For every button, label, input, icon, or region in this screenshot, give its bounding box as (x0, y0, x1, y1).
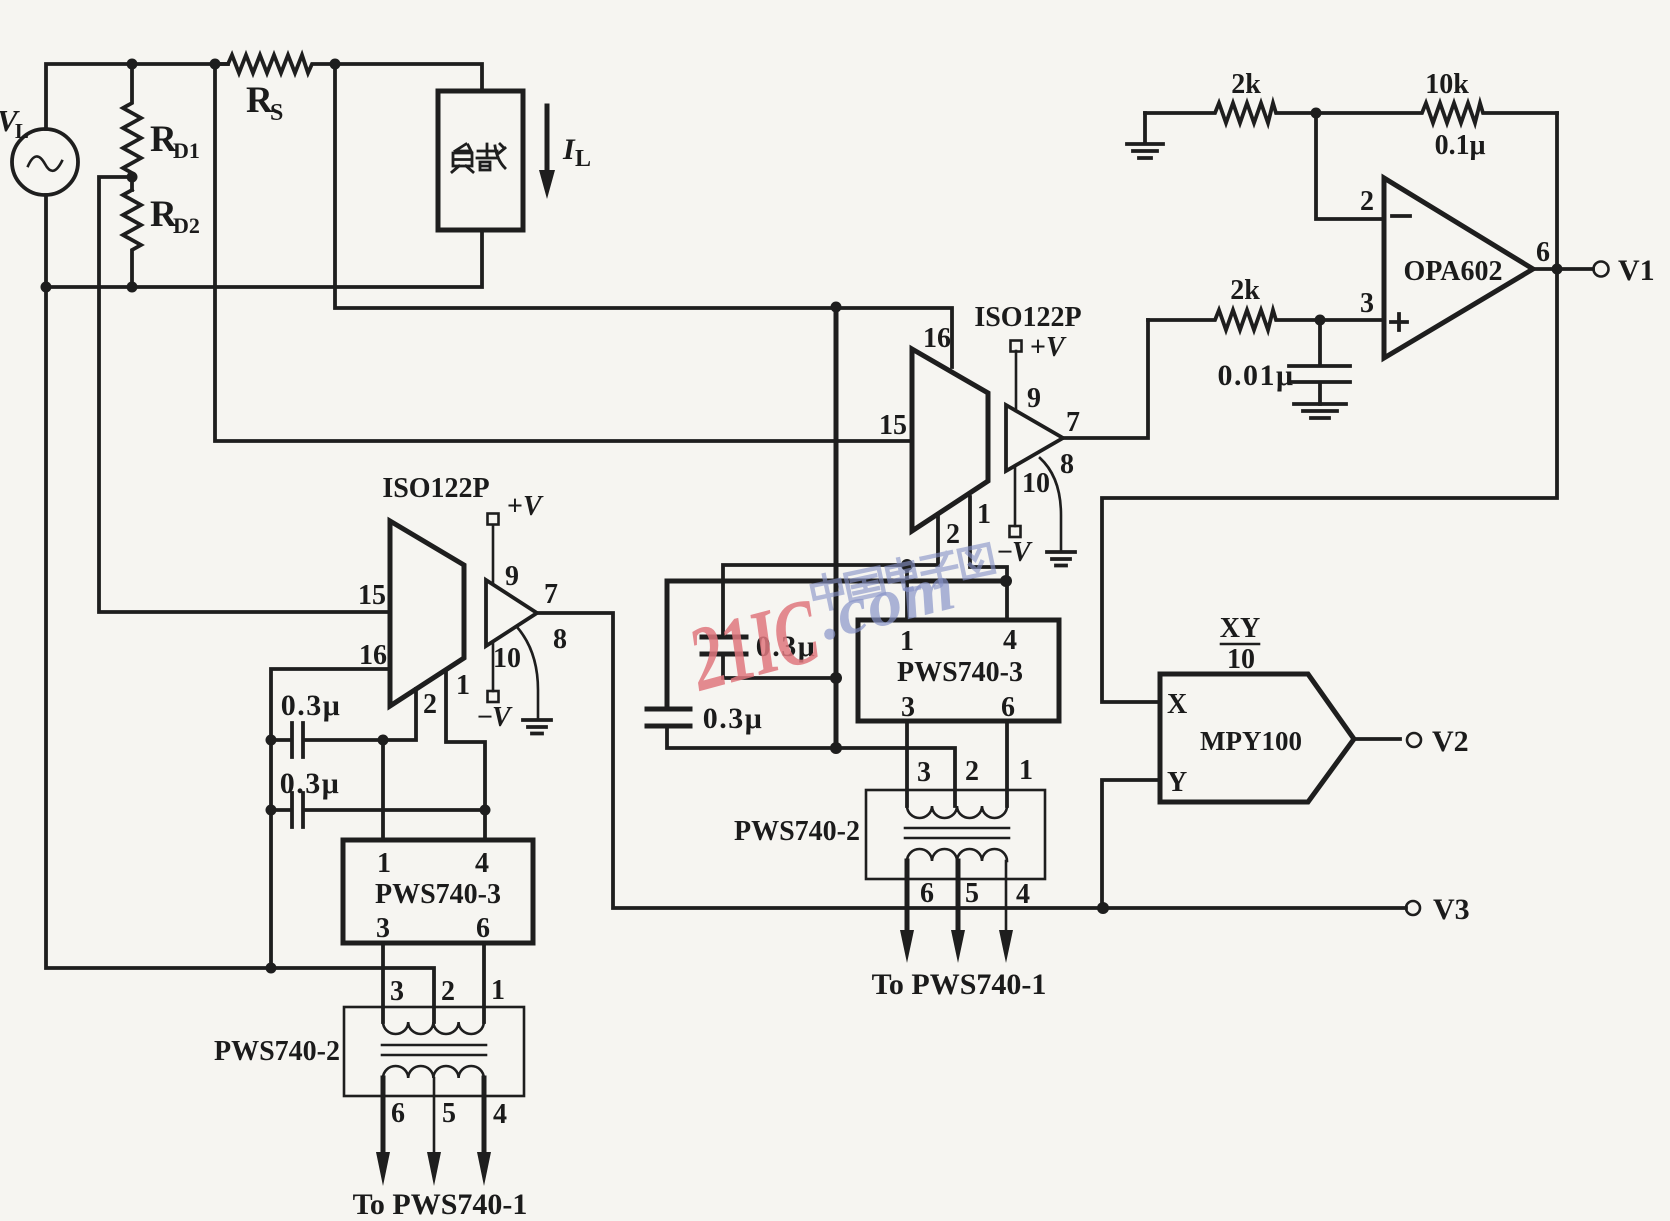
ground ISO2 (1047, 552, 1075, 566)
wire ISO2 common vertical (834, 307, 839, 748)
T2 pin5 arrow (956, 861, 961, 933)
wire ISO2 pin1 to PWS2 pin4 (970, 497, 1007, 620)
node RD2 bottom (127, 282, 138, 293)
svg-text:2: 2 (1360, 186, 1374, 217)
node C2 left (266, 805, 277, 816)
T1 primary winding (383, 1022, 484, 1034)
svg-text:8: 8 (1060, 449, 1074, 480)
svg-text:OPA602: OPA602 (1403, 256, 1502, 287)
svg-text:10k: 10k (1425, 69, 1469, 100)
wire ISO1 pin16 / left bypass rail (271, 669, 390, 968)
svg-text:V3: V3 (1433, 893, 1470, 926)
PWS740-3 #2 box (858, 620, 1059, 721)
wire V2 output (1354, 737, 1400, 741)
svg-text:6: 6 (391, 1098, 405, 1129)
wire divider tap to ISO1 pin15 (99, 177, 390, 612)
ISO2 -V terminal (1014, 466, 1017, 526)
svg-text:PWS740-2: PWS740-2 (214, 1036, 340, 1067)
svg-text:6: 6 (1536, 237, 1550, 268)
T2 core (905, 828, 1009, 838)
svg-text:XY: XY (1220, 613, 1260, 644)
wire PWS1 pin6 to T1 (482, 943, 486, 1022)
svg-text:V: V (1046, 332, 1067, 363)
resistor RS (215, 55, 482, 91)
svg-text:1: 1 (456, 670, 470, 701)
wire RS left sense to ISO2 pin15 (215, 64, 912, 441)
wire PWS2 pin1 (905, 565, 909, 620)
capacitor C1 0.3u (271, 689, 416, 740)
wire ISO2 pin8 to ground (1040, 458, 1061, 550)
wire top rail left (46, 64, 228, 129)
watermark hanzi (810, 540, 994, 612)
svg-text:9: 9 (505, 561, 519, 592)
svg-text:2: 2 (946, 519, 960, 550)
wire ISO1 pin7 output to V3 rail (537, 613, 1406, 908)
node bypass rail top (266, 735, 277, 746)
opamp plus (1391, 314, 1407, 330)
svg-text:4: 4 (1016, 879, 1030, 910)
svg-text:15: 15 (358, 580, 386, 611)
node C3 bottom / common (830, 672, 842, 684)
T2 pin6 arrow (905, 861, 910, 933)
T1 pin6 arrow (381, 1078, 386, 1155)
svg-text:ISO122P: ISO122P (382, 473, 489, 504)
ground 2k feedback (1127, 113, 1163, 158)
ISO1 -V terminal (492, 642, 495, 691)
svg-text:3: 3 (1360, 288, 1374, 319)
svg-text:7: 7 (544, 579, 558, 610)
wire PWS2 pin6 to T2 (1005, 721, 1009, 806)
wire left common rail (46, 195, 434, 1022)
transformer T2 box (866, 790, 1045, 879)
svg-text:L: L (575, 146, 591, 172)
svg-text:4: 4 (493, 1099, 507, 1130)
node opamp +input (1315, 315, 1326, 326)
T2 primary winding (907, 806, 1007, 818)
svg-text:16: 16 (359, 640, 387, 671)
T1 secondary winding (383, 1066, 484, 1078)
svg-text:ISO122P: ISO122P (974, 302, 1081, 333)
svg-text:4: 4 (1003, 625, 1017, 656)
T1 core (382, 1045, 486, 1055)
svg-text:3: 3 (917, 757, 931, 788)
T2 secondary winding (907, 849, 1007, 861)
svg-text:MPY100: MPY100 (1200, 726, 1302, 756)
wire MPY Y input (1102, 780, 1160, 908)
capacitor C2 0.3u (271, 808, 485, 812)
svg-text:6: 6 (476, 913, 490, 944)
svg-text:0.3μ: 0.3μ (281, 689, 342, 722)
node rail RS right (330, 59, 341, 70)
svg-text:2: 2 (965, 756, 979, 787)
node C1 right (378, 735, 389, 746)
svg-text:7: 7 (1066, 407, 1080, 438)
svg-text:L: L (15, 119, 29, 143)
svg-text:3: 3 (376, 913, 390, 944)
wire ISO1 pin8 to ground (517, 627, 538, 718)
T1 pin4 arrow (482, 1078, 487, 1155)
V1 terminal (1594, 262, 1609, 277)
ground ISO1 (523, 720, 551, 734)
V2 terminal (1407, 733, 1421, 747)
svg-text:6: 6 (1001, 692, 1015, 723)
svg-text:1: 1 (977, 499, 991, 530)
svg-text:4: 4 (475, 848, 489, 879)
node RD1 top (127, 59, 138, 70)
transformer T1 box (344, 1007, 524, 1096)
node C2 right (480, 805, 491, 816)
svg-text:S: S (270, 100, 283, 126)
ISO2 output triangle (1006, 405, 1063, 471)
resistor 2k input (1148, 310, 1384, 330)
wire opamp -input (1316, 113, 1384, 219)
svg-text:V1: V1 (1618, 254, 1655, 287)
svg-text:PWS740-3: PWS740-3 (375, 879, 501, 910)
wire PWS1 pin3 to T1 (381, 943, 385, 1022)
svg-text:PWS740-2: PWS740-2 (734, 816, 860, 847)
svg-text:3: 3 (390, 976, 404, 1007)
svg-text:3: 3 (901, 692, 915, 723)
svg-text:+: + (1030, 332, 1046, 363)
svg-text:−: − (997, 537, 1013, 568)
svg-text:Y: Y (1167, 767, 1187, 798)
current arrow IL (545, 106, 550, 172)
wire RS right sense / primary common to ISO2 pin16 (335, 64, 952, 367)
svg-text:8: 8 (553, 624, 567, 655)
label load (fuzai) (452, 144, 505, 172)
svg-text:5: 5 (442, 1098, 456, 1129)
resistor RD1 (123, 64, 141, 190)
ISO2 body (912, 349, 988, 531)
AC source V_L (12, 129, 78, 195)
svg-text:5: 5 (965, 878, 979, 909)
node V1 (1552, 264, 1563, 275)
svg-text:−: − (477, 702, 493, 733)
ground 0.01u (1294, 404, 1346, 418)
svg-text:+: + (507, 491, 523, 522)
svg-text:16: 16 (923, 323, 951, 354)
svg-text:2k: 2k (1231, 69, 1261, 100)
node rail RS left (210, 59, 221, 70)
svg-text:0.01μ: 0.01μ (1217, 359, 1294, 392)
MPY100 body (1160, 674, 1354, 802)
node bypass rail bottom (266, 963, 277, 974)
svg-text:21IC: 21IC (678, 579, 830, 711)
svg-text:V: V (492, 702, 513, 733)
ISO1 body (390, 521, 464, 706)
svg-text:1: 1 (491, 975, 505, 1006)
wire ISO2 pin2 to C3 (723, 514, 938, 637)
svg-text:I: I (562, 133, 576, 166)
svg-text:D2: D2 (173, 213, 200, 238)
svg-text:V: V (1012, 537, 1033, 568)
svg-text:To PWS740-1: To PWS740-1 (353, 1188, 528, 1221)
T2 pin4 arrow (1005, 861, 1008, 933)
svg-text:D1: D1 (173, 138, 200, 163)
svg-text:1: 1 (1019, 755, 1033, 786)
capacitor C4 0.3u (647, 709, 690, 726)
wire ISO2 pin7 output to 2k (1063, 320, 1148, 438)
node RD1/RD2 tap (127, 172, 138, 183)
wire PWS2 pin3 to T2 (905, 721, 909, 806)
wire opamp output (1533, 267, 1593, 271)
opamp minus (1392, 214, 1410, 218)
resistor RD2 (123, 190, 141, 287)
wire PWS1 pin1 (381, 740, 385, 840)
node C4 bottom / common (830, 742, 842, 754)
node supply rail right (1000, 575, 1012, 587)
svg-text:0.1μ: 0.1μ (1435, 130, 1486, 161)
wire ISO1 pin1 to PWS1 pin4 (446, 670, 485, 840)
node common branch (831, 302, 842, 313)
svg-text:0.3μ: 0.3μ (280, 767, 341, 800)
T1 pin5 arrow (433, 1078, 436, 1155)
opamp OPA602 body (1384, 178, 1533, 358)
svg-text:2k: 2k (1230, 275, 1260, 306)
wire supply rail to C4 (667, 581, 1006, 709)
PWS740-3 #1 box (343, 840, 533, 943)
capacitor 0.01u (1289, 320, 1350, 404)
svg-text:1: 1 (377, 848, 391, 879)
wire load bottom to common (46, 230, 482, 287)
svg-text:V2: V2 (1432, 725, 1469, 758)
svg-text:To PWS740-1: To PWS740-1 (872, 968, 1047, 1001)
node feedback top (1311, 108, 1322, 119)
svg-text:V: V (523, 491, 544, 522)
load box (438, 91, 523, 230)
svg-text:10: 10 (1227, 644, 1255, 675)
svg-text:2: 2 (423, 689, 437, 720)
svg-text:6: 6 (920, 878, 934, 909)
ISO1 +V terminal (488, 514, 499, 525)
V3 terminal (1406, 901, 1420, 915)
node pin2 rail / PWS2 pin1 (901, 559, 913, 571)
svg-text:PWS740-3: PWS740-3 (897, 657, 1023, 688)
node source bottom (41, 282, 52, 293)
wire feedback / V1 to MPY X input (1102, 113, 1557, 702)
svg-text:2: 2 (441, 976, 455, 1007)
svg-text:10: 10 (493, 643, 521, 674)
node V3 rail Y branch (1097, 902, 1109, 914)
svg-text:10: 10 (1022, 468, 1050, 499)
ISO2 +V terminal (1011, 341, 1022, 352)
capacitor C3 0.3u (702, 637, 746, 654)
svg-text:X: X (1167, 689, 1187, 720)
svg-text:9: 9 (1027, 383, 1041, 414)
resistor 2k feedback + 10k feedback rail (1145, 103, 1557, 123)
ISO1 output triangle (486, 580, 537, 646)
svg-text:15: 15 (879, 410, 907, 441)
